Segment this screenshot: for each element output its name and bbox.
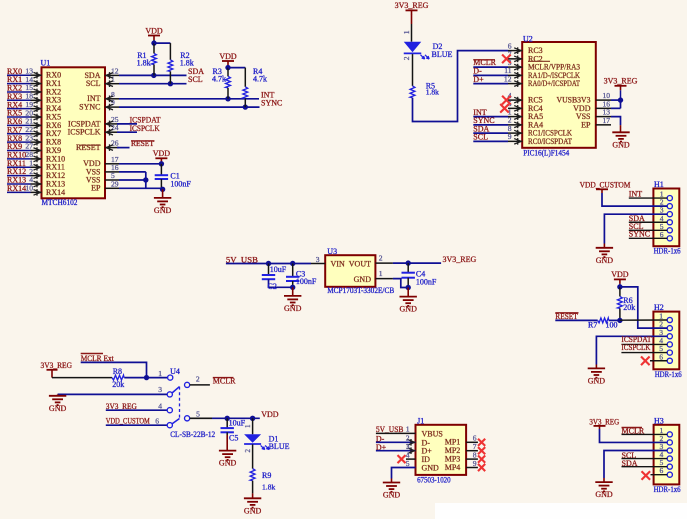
svg-text:9: 9 <box>111 98 115 107</box>
svg-text:VOUT: VOUT <box>349 259 371 268</box>
svg-text:29: 29 <box>111 179 119 188</box>
svg-text:C2: C2 <box>268 282 277 291</box>
svg-text:INT: INT <box>629 189 642 198</box>
svg-text:BLUE: BLUE <box>269 442 290 451</box>
svg-text:26: 26 <box>111 139 119 148</box>
svg-text:GND: GND <box>49 404 67 413</box>
svg-text:1: 1 <box>379 269 383 278</box>
svg-text:17: 17 <box>603 116 611 125</box>
svg-text:1: 1 <box>158 369 162 378</box>
svg-text:1.8k: 1.8k <box>426 87 439 96</box>
svg-text:R7: R7 <box>588 320 597 329</box>
svg-text:3V3_REG: 3V3_REG <box>395 1 429 10</box>
svg-text:100nF: 100nF <box>416 277 437 286</box>
svg-text:RX14: RX14 <box>46 188 65 197</box>
svg-text:VDD_CUSTOM: VDD_CUSTOM <box>106 417 150 426</box>
svg-text:ICSPCLK: ICSPCLK <box>621 343 650 352</box>
svg-text:3V3_REG: 3V3_REG <box>41 361 73 370</box>
svg-text:1.8k: 1.8k <box>180 59 194 68</box>
svg-text:MCP1703T-3302E/CB: MCP1703T-3302E/CB <box>327 286 394 295</box>
svg-text:3: 3 <box>316 255 320 264</box>
svg-text:MTCH6102: MTCH6102 <box>42 198 78 207</box>
svg-text:GND: GND <box>400 305 418 314</box>
svg-text:2: 2 <box>402 56 411 60</box>
svg-text:9: 9 <box>473 459 477 468</box>
svg-text:H1: H1 <box>654 180 664 189</box>
svg-text:R8: R8 <box>113 367 122 376</box>
svg-text:1: 1 <box>244 424 252 428</box>
svg-text:1.8k: 1.8k <box>137 59 151 68</box>
svg-text:RX14: RX14 <box>7 184 26 193</box>
svg-text:SCL: SCL <box>473 133 488 142</box>
svg-text:D+: D+ <box>473 75 484 84</box>
svg-text:1.8k: 1.8k <box>262 482 275 491</box>
svg-text:EP: EP <box>581 120 591 129</box>
svg-text:HDR-1x6: HDR-1x6 <box>655 370 682 379</box>
svg-text:VDD: VDD <box>611 270 629 279</box>
svg-text:VDD: VDD <box>153 149 171 158</box>
svg-text:20k: 20k <box>623 303 635 312</box>
svg-text:RA0/D+/ICSPDAT: RA0/D+/ICSPDAT <box>528 79 580 88</box>
svg-text:PIC16(L)F1454: PIC16(L)F1454 <box>523 149 569 158</box>
svg-text:BLUE: BLUE <box>432 50 453 59</box>
svg-text:3V3_REG: 3V3_REG <box>604 77 638 86</box>
svg-text:J1: J1 <box>417 417 424 426</box>
svg-text:H3: H3 <box>654 416 664 425</box>
svg-text:GND: GND <box>588 377 606 386</box>
svg-text:3V3_REG: 3V3_REG <box>589 417 619 426</box>
svg-text:2: 2 <box>196 375 200 384</box>
svg-text:3V3_REG: 3V3_REG <box>443 255 477 264</box>
svg-text:6: 6 <box>660 230 664 239</box>
svg-text:GND: GND <box>244 506 262 515</box>
svg-text:SYNC: SYNC <box>261 99 282 108</box>
svg-text:GND: GND <box>596 256 614 265</box>
svg-text:20k: 20k <box>112 380 124 389</box>
svg-text:4.7k: 4.7k <box>253 75 267 84</box>
svg-text:100nF: 100nF <box>296 277 317 286</box>
svg-text:VDD: VDD <box>261 410 279 419</box>
svg-text:GND: GND <box>422 464 440 473</box>
svg-text:2: 2 <box>379 253 383 262</box>
svg-text:SCL: SCL <box>188 75 203 84</box>
svg-text:SCL: SCL <box>86 79 101 88</box>
svg-text:100nF: 100nF <box>170 179 191 188</box>
svg-text:SYNC: SYNC <box>629 230 650 239</box>
svg-text:9: 9 <box>508 132 512 141</box>
svg-text:6: 6 <box>659 352 663 361</box>
svg-text:U3: U3 <box>327 247 337 256</box>
svg-text:RESET: RESET <box>76 143 101 152</box>
svg-text:VDD: VDD <box>219 52 237 61</box>
svg-text:ICSPCLK: ICSPCLK <box>130 124 160 133</box>
svg-text:3: 3 <box>158 385 162 394</box>
svg-text:6: 6 <box>660 466 664 475</box>
svg-text:EP: EP <box>91 184 101 193</box>
svg-text:U4: U4 <box>170 367 180 376</box>
svg-text:VDD_CUSTOM: VDD_CUSTOM <box>580 181 631 190</box>
svg-text:R9: R9 <box>262 471 271 480</box>
svg-text:VIN: VIN <box>331 259 345 268</box>
svg-text:U1: U1 <box>41 59 51 68</box>
svg-text:CL-SB-22B-12: CL-SB-22B-12 <box>170 430 215 439</box>
svg-text:4: 4 <box>158 402 162 411</box>
svg-text:10uF: 10uF <box>270 265 287 274</box>
svg-text:ICSPCLK: ICSPCLK <box>68 128 101 137</box>
svg-text:GND: GND <box>383 491 401 500</box>
svg-text:RC0/ICSPDAT: RC0/ICSPDAT <box>528 137 572 146</box>
svg-text:6: 6 <box>155 417 159 426</box>
svg-text:1: 1 <box>406 425 410 434</box>
svg-text:VDD: VDD <box>145 26 163 35</box>
svg-text:GND: GND <box>595 490 613 499</box>
svg-text:5: 5 <box>196 410 200 419</box>
svg-text:VBUS: VBUS <box>422 429 443 438</box>
svg-text:67503-1020: 67503-1020 <box>417 475 451 484</box>
svg-text:MP4: MP4 <box>445 463 461 472</box>
svg-text:GND: GND <box>354 275 372 284</box>
svg-text:100: 100 <box>606 320 618 329</box>
svg-text:SYNC: SYNC <box>79 103 100 112</box>
svg-text:5: 5 <box>406 459 410 468</box>
svg-text:GND: GND <box>284 304 302 313</box>
svg-text:2: 2 <box>244 449 252 453</box>
svg-text:C5: C5 <box>229 434 238 443</box>
svg-text:GND: GND <box>612 140 630 149</box>
svg-text:HDR-1x6: HDR-1x6 <box>654 485 681 494</box>
svg-text:U2: U2 <box>523 34 533 43</box>
svg-text:4.7k: 4.7k <box>212 75 226 84</box>
svg-text:10: 10 <box>25 184 33 193</box>
svg-text:HDR-1x6: HDR-1x6 <box>654 247 681 256</box>
svg-text:1: 1 <box>111 75 115 84</box>
svg-text:GND: GND <box>154 206 172 215</box>
svg-text:GND: GND <box>219 459 237 468</box>
svg-text:1: 1 <box>402 30 411 34</box>
